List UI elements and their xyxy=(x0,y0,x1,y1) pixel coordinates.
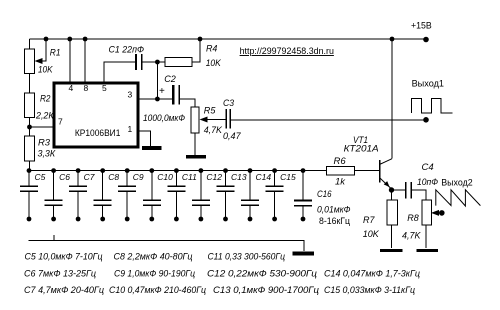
svg-text:C13 0,1мкФ 900-1700Гц: C13 0,1мкФ 900-1700Гц xyxy=(213,285,319,295)
wire R1 bottom to R2 top xyxy=(29,74,31,94)
svg-text:C7 4,7мкФ 20-40Гц: C7 4,7мкФ 20-40Гц xyxy=(24,285,104,295)
resistor R4 xyxy=(165,58,192,67)
svg-text:8-16кГц: 8-16кГц xyxy=(319,216,351,227)
capacitor C9 xyxy=(118,171,136,219)
svg-text:http://299792458.3dn.ru: http://299792458.3dn.ru xyxy=(240,46,334,57)
node dot rail-R1 wiper xyxy=(44,37,49,42)
svg-text:C9 1,0мкФ 90-190Гц: C9 1,0мкФ 90-190Гц xyxy=(114,269,195,279)
capacitor C11 xyxy=(167,171,185,219)
capacitor C3 xyxy=(226,109,230,129)
switch common wire xyxy=(29,240,304,251)
node dot C16 top xyxy=(301,168,306,173)
output1 square wave symbol xyxy=(412,99,453,113)
wire C3 to output1 terminal xyxy=(231,119,426,121)
svg-text:+: + xyxy=(159,86,165,97)
node dot emitter xyxy=(389,187,394,192)
svg-text:Выход2: Выход2 xyxy=(441,178,473,189)
svg-text:4,7K: 4,7K xyxy=(402,230,421,241)
capacitor C13 xyxy=(217,171,235,219)
svg-text:8: 8 xyxy=(84,83,89,93)
node dot rail-R4 xyxy=(198,37,203,42)
svg-text:C11 0,33 300-560Гц: C11 0,33 300-560Гц xyxy=(208,252,286,262)
svg-text:C10 0,47мкФ 210-460Гц: C10 0,47мкФ 210-460Гц xyxy=(109,285,206,295)
capacitor C7 xyxy=(69,171,87,219)
svg-text:C14 0,047мкФ 1,7-3кГц: C14 0,047мкФ 1,7-3кГц xyxy=(324,269,420,279)
resistor R8 (potentiometer body) xyxy=(422,200,432,225)
capacitor C6 xyxy=(45,171,63,219)
wire collector riser from rail xyxy=(391,39,393,159)
transistor VT1 collector/emitter diagonals xyxy=(379,159,392,165)
svg-text:0,01мкФ: 0,01мкФ xyxy=(317,205,351,216)
R8 wiper arrowhead xyxy=(431,210,439,216)
wire R7 to ground xyxy=(391,225,393,248)
capacitor C14 xyxy=(241,171,259,219)
svg-text:2,2К: 2,2К xyxy=(35,111,55,122)
capacitor C8 xyxy=(94,171,112,219)
wire R1 wiper to rail xyxy=(37,39,47,61)
node dot pin3 xyxy=(155,97,160,102)
wire C1 right to R4 left xyxy=(143,61,166,63)
capacitor C15 xyxy=(266,171,284,219)
resistor R2 xyxy=(25,93,35,118)
R1 wiper arrowhead xyxy=(35,58,43,64)
svg-text:C16: C16 xyxy=(317,189,332,200)
svg-text:C4: C4 xyxy=(422,162,434,173)
svg-text:R2: R2 xyxy=(40,94,51,105)
node dot rail-pin8 xyxy=(83,37,88,42)
svg-text:10пФ: 10пФ xyxy=(417,177,438,188)
node dot rail-pin4 xyxy=(67,37,72,42)
svg-text:4: 4 xyxy=(69,83,74,93)
svg-text:C5: C5 xyxy=(35,172,46,182)
transistor VT1 xyxy=(379,160,381,182)
terminal dot output1 xyxy=(423,117,429,123)
svg-text:R5: R5 xyxy=(204,106,216,117)
capacitor C12 xyxy=(192,171,210,219)
svg-text:R6: R6 xyxy=(334,156,347,167)
svg-text:C1 22пФ: C1 22пФ xyxy=(109,44,145,55)
svg-text:1: 1 xyxy=(128,124,133,134)
svg-text:7: 7 xyxy=(58,117,63,127)
svg-text:+15В: +15В xyxy=(411,21,432,32)
wire node pin7 to IC xyxy=(30,126,55,128)
svg-text:C13: C13 xyxy=(231,172,247,182)
svg-text:3,3К: 3,3К xyxy=(38,148,57,159)
svg-text:КТ201А: КТ201А xyxy=(344,144,379,155)
capacitor C2 electrolytic xyxy=(172,85,175,105)
wire pin4 riser xyxy=(69,39,71,83)
svg-text:10K: 10K xyxy=(38,65,53,76)
wire emitter node to R7 xyxy=(391,189,393,200)
resistor R3 xyxy=(25,136,35,161)
capacitor C5 xyxy=(20,171,38,219)
wire R8 to ground xyxy=(425,225,427,248)
ground under R5 xyxy=(186,155,206,159)
svg-text:1000,0мкФ: 1000,0мкФ xyxy=(143,113,185,124)
wire pin5 riser to C1 xyxy=(104,62,135,83)
node dot rail-collector xyxy=(390,37,395,42)
wire pin1 to ground xyxy=(138,131,151,146)
ground under R8 xyxy=(417,249,439,252)
svg-text:10K: 10K xyxy=(206,58,222,69)
svg-text:R7: R7 xyxy=(363,215,375,226)
svg-text:C14: C14 xyxy=(256,172,272,182)
svg-text:C12 0,22мкФ 530-900Гц: C12 0,22мкФ 530-900Гц xyxy=(207,269,317,279)
svg-text:R3: R3 xyxy=(38,138,51,149)
svg-text:C12: C12 xyxy=(206,172,222,182)
wire node drop to pin3 line xyxy=(156,62,158,99)
svg-text:C6: C6 xyxy=(59,172,70,182)
wire R6 right to base xyxy=(355,170,380,172)
resistor R1 (potentiometer body) xyxy=(25,49,35,74)
wire R8 wiper to output2 terminal xyxy=(433,212,442,214)
capacitor C4 xyxy=(406,182,411,199)
svg-text:C15: C15 xyxy=(280,172,296,182)
svg-text:R4: R4 xyxy=(206,44,217,55)
resistor R7 xyxy=(387,200,398,225)
wire R5 bottom to ground xyxy=(194,133,196,155)
capacitor C16 xyxy=(302,171,304,200)
svg-text:C8 2,2мкФ 40-80Гц: C8 2,2мкФ 40-80Гц xyxy=(114,252,193,262)
svg-text:КР1006ВИ1: КР1006ВИ1 xyxy=(75,128,121,139)
op-amp U1: IC KR1006VI1 body xyxy=(54,83,138,147)
output2 sawtooth wave symbol xyxy=(436,190,481,206)
svg-text:C15 0,033мкФ 3-11кГц: C15 0,033мкФ 3-11кГц xyxy=(324,285,415,295)
node dot C1-R4 junction xyxy=(155,60,160,65)
wire C2 right to R5 top xyxy=(180,99,195,107)
wire emitter node to C4 xyxy=(392,189,406,191)
switch wiper tick xyxy=(53,235,55,241)
svg-text:C10: C10 xyxy=(157,172,173,182)
svg-text:3: 3 xyxy=(128,90,133,100)
wire R2 bottom to R3 top xyxy=(29,118,31,137)
capacitor C10 xyxy=(143,171,161,219)
VT1 emitter arrowhead xyxy=(384,181,390,187)
svg-text:C8: C8 xyxy=(108,172,119,182)
node dot R2-R3-pin7 xyxy=(27,125,32,130)
wire R3 bottom to capacitor bus xyxy=(29,161,31,171)
R5 wiper arrowhead xyxy=(200,117,208,123)
svg-text:C6 7мкФ 13-25Гц: C6 7мкФ 13-25Гц xyxy=(24,269,96,279)
svg-text:0,47: 0,47 xyxy=(223,131,241,142)
ground under R7 xyxy=(380,249,403,252)
wire capacitor bus (top) xyxy=(30,170,327,172)
svg-text:1k: 1k xyxy=(335,177,346,188)
wire pin8 riser xyxy=(84,39,86,83)
svg-text:R1: R1 xyxy=(50,48,61,59)
svg-text:C11: C11 xyxy=(182,172,197,182)
ground under pin1 xyxy=(142,146,162,150)
wire top +15V rail xyxy=(30,38,427,40)
wire C4 to R8 top xyxy=(412,190,426,200)
terminal dot output2 xyxy=(439,210,445,216)
wire rail corner down to R1 top xyxy=(29,39,31,49)
wire R4 right up to rail xyxy=(192,39,200,62)
svg-text:4,7K: 4,7K xyxy=(204,125,223,136)
capacitor bank C5-C15 xyxy=(20,168,296,221)
svg-text:R8: R8 xyxy=(407,213,419,224)
terminal dot +15V xyxy=(423,37,429,43)
wire pin3 to C2 xyxy=(138,98,172,100)
svg-text:C3: C3 xyxy=(223,98,235,109)
ground under switch xyxy=(292,252,314,256)
svg-text:C5 10,0мкФ 7-10Гц: C5 10,0мкФ 7-10Гц xyxy=(25,252,103,262)
svg-text:5: 5 xyxy=(102,83,107,93)
resistor R6 xyxy=(327,167,355,176)
svg-text:10K: 10K xyxy=(363,229,380,240)
capacitor C1 xyxy=(136,54,142,70)
svg-text:C2: C2 xyxy=(164,74,176,85)
resistor R5 (potentiometer body) xyxy=(191,107,199,133)
svg-text:Выход1: Выход1 xyxy=(412,78,444,89)
svg-text:C9: C9 xyxy=(133,172,144,182)
wire R5 wiper from C3 xyxy=(201,119,226,121)
svg-text:C7: C7 xyxy=(84,172,95,182)
node dot C16 bottom xyxy=(301,217,306,222)
